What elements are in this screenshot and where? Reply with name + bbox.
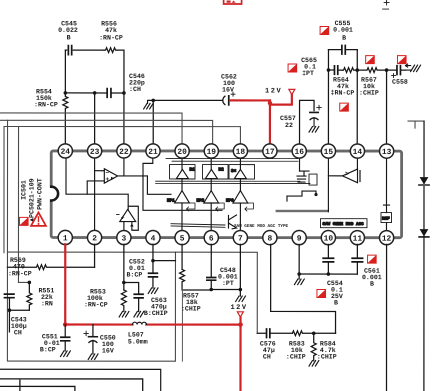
- wire double bus right: [276, 210, 328, 212]
- capacitor C546: [107, 89, 111, 98]
- svg-text:16: 16: [294, 148, 304, 157]
- capacitor C576: [257, 329, 292, 338]
- svg-text::CHIP: :CHIP: [181, 305, 201, 312]
- capacitor C558: [387, 66, 406, 78]
- svg-text:15: 15: [324, 148, 334, 157]
- pin 13: [380, 144, 394, 158]
- svg-text:B: B: [334, 300, 338, 307]
- node dot pin3: [122, 281, 126, 285]
- wire pin12 drop: [385, 244, 387, 391]
- node dot pin7: [239, 288, 243, 292]
- label C545 0.022 B: [58, 20, 78, 41]
- label C576 47u CH: [260, 341, 276, 361]
- svg-text:▲PC5021-109: ▲PC5021-109: [28, 178, 35, 222]
- capacitor C563: [124, 283, 143, 312]
- red marker square R564 below: [340, 103, 349, 111]
- wire R556 right vertical to pin22: [117, 50, 124, 93]
- wire left vertical x3.5: [3, 126, 5, 252]
- red marker square C554: [317, 290, 326, 298]
- box top right corner y121.5: [408, 121, 424, 128]
- wire pin7 drop: [239, 244, 241, 296]
- saw generator ramp lines: [171, 224, 225, 228]
- pin 9: [292, 231, 306, 245]
- wire red 12V feed: [230, 95, 292, 145]
- REF box: [381, 213, 392, 223]
- svg-text:NP1: NP1: [167, 198, 175, 203]
- resistor R584: [311, 333, 316, 361]
- comparator U1b triangle up: [116, 206, 138, 231]
- box B outline: [0, 369, 161, 391]
- pin 7: [233, 231, 247, 245]
- svg-text:470: 470: [13, 263, 25, 270]
- svg-text:13: 13: [382, 148, 392, 157]
- svg-text::RN-CP: :RN-CP: [8, 270, 32, 277]
- resistor R553: [121, 290, 126, 312]
- wire pin5 drop: [181, 244, 183, 269]
- wire REF to pin12: [385, 223, 387, 231]
- svg-text:B: B: [370, 281, 374, 288]
- svg-text:3×: 3×: [231, 169, 237, 174]
- wire left bus2 to pin19: [0, 120, 213, 144]
- svg-text::RN: :RN: [41, 300, 53, 307]
- resistor R583: [292, 331, 335, 336]
- wire C545 left vertical: [64, 50, 66, 93]
- ground pin7: [236, 296, 246, 302]
- capacitor C552: [149, 273, 158, 288]
- wire U1a output drop: [147, 176, 171, 194]
- svg-text:3: 3: [121, 234, 126, 243]
- svg-text:10: 10: [324, 235, 334, 244]
- label R584 4.7k :CHIP: [317, 341, 337, 361]
- resistor R551: [27, 282, 32, 310]
- pin 4: [146, 230, 160, 244]
- ground R553: [119, 311, 129, 317]
- resistor R556: [104, 48, 117, 53]
- label C562 100 16V: [221, 74, 237, 94]
- node junction dot R567 right pin13: [385, 68, 389, 72]
- wire pin14 net vertical: [356, 70, 358, 144]
- pin 15: [321, 144, 335, 158]
- pin 14: [350, 144, 364, 158]
- svg-text:NP2: NP2: [196, 198, 204, 203]
- red marker box top edge: [224, 0, 242, 4]
- svg-text:19: 19: [207, 148, 217, 157]
- svg-text:22: 22: [285, 122, 293, 129]
- label C546 220p :CH: [129, 73, 145, 93]
- wire C548 net to pin7: [211, 288, 240, 290]
- red marker square C558: [397, 56, 406, 64]
- node dot R583 right: [312, 331, 316, 335]
- svg-text:16V: 16V: [102, 347, 114, 354]
- svg-text::CH: :CH: [129, 86, 141, 93]
- svg-text:SAW GENE MOD AGC TYPE: SAW GENE MOD AGC TYPE: [234, 224, 289, 229]
- ground R584: [309, 361, 319, 367]
- diode D2: [419, 229, 429, 237]
- node dot C543 bottom: [8, 308, 12, 312]
- label L507 5.0mm: [128, 331, 148, 345]
- svg-text:5.0mm: 5.0mm: [128, 338, 148, 345]
- wire pin13 internal vertical: [383, 157, 389, 212]
- pin 10: [321, 231, 335, 245]
- wire gray top extension to C576 leg: [175, 252, 257, 333]
- label C551 0.01 B:CP: [40, 333, 60, 353]
- inductor L507: [132, 322, 146, 324]
- pin 12: [379, 231, 393, 245]
- diode D1: [419, 177, 429, 185]
- wire pin21 internal path: [143, 157, 222, 210]
- resistor R557: [180, 269, 212, 290]
- supply arrow 12V red: [289, 89, 295, 94]
- svg-text::RN-CP: :RN-CP: [84, 301, 108, 308]
- pin 8: [263, 231, 277, 245]
- ground pin9: [294, 279, 304, 285]
- node junction dot x95 y93: [93, 91, 97, 95]
- wire pin13 net vertical: [386, 70, 388, 144]
- svg-text:7: 7: [238, 235, 243, 244]
- red marker square warning: [19, 217, 28, 225]
- supply arrow 12V red bottom: [237, 312, 243, 317]
- svg-text:2: 2: [92, 234, 97, 243]
- label C563 470p B:CHIP: [144, 297, 168, 317]
- label C543 100u CH: [11, 316, 27, 336]
- capacitor C543: [4, 294, 29, 332]
- ground C551: [61, 351, 71, 357]
- svg-text:B:CP: B:CP: [126, 271, 142, 278]
- wire pin2 drop: [94, 244, 96, 267]
- resistor R554: [63, 93, 68, 144]
- node junction dot x124 y93: [122, 91, 126, 95]
- node dot R551 top: [28, 281, 32, 285]
- pin 3: [117, 230, 131, 244]
- wire red bus right of L507: [146, 323, 240, 325]
- capacitor C557 polarized: [310, 105, 321, 126]
- wire pin9 drop: [298, 244, 300, 279]
- wire R557 column down: [181, 290, 183, 361]
- buffer box pin19 column: [203, 165, 229, 179]
- node dot pin9: [297, 272, 301, 276]
- ground C550: [88, 354, 98, 360]
- capacitor C561: [352, 244, 362, 274]
- box A outline: [7, 252, 175, 361]
- svg-text:11: 11: [353, 235, 363, 244]
- buffer triangle B3: [231, 169, 246, 179]
- red marker square C565: [288, 64, 297, 72]
- comparator Q20 triangle: [167, 157, 195, 231]
- svg-text:12V: 12V: [265, 88, 282, 96]
- wire red bus left of L507: [65, 323, 132, 325]
- capacitor C555: [328, 45, 357, 54]
- pin 16: [292, 144, 306, 158]
- pin 17: [263, 144, 277, 158]
- label C561 0.001 B: [362, 268, 382, 288]
- label R583 10k :CHIP: [286, 341, 306, 361]
- wire pin22 vertical below bus: [123, 93, 125, 144]
- svg-text:B1: B1: [190, 167, 196, 172]
- svg-text:B:CP: B:CP: [40, 346, 56, 353]
- node red dot 12V bus: [238, 322, 243, 327]
- wire left bus1 to pin20: [0, 113, 182, 144]
- svg-text:5: 5: [180, 234, 185, 243]
- IC notch: [49, 186, 53, 201]
- svg-text:CH: CH: [14, 329, 22, 336]
- wire left bus3 to pin18: [4, 126, 240, 144]
- svg-text::RN-CP: :RN-CP: [99, 34, 123, 41]
- svg-text:21: 21: [148, 148, 158, 157]
- saw transistor symbol: [228, 215, 236, 229]
- red marker square C555: [320, 27, 329, 35]
- svg-text::RN-CP: :RN-CP: [34, 101, 58, 108]
- label R569 470 :RN-CP: [8, 257, 32, 278]
- svg-text:PWN-CONT: PWN-CONT: [36, 178, 43, 210]
- wire diode column vertical: [423, 121, 425, 391]
- node dot C548: [209, 288, 213, 292]
- node junction dot R564 left: [327, 68, 331, 72]
- svg-text:NP3: NP3: [226, 199, 234, 204]
- svg-text:12V: 12V: [230, 304, 247, 312]
- wire left vertical x18.5: [18, 126, 29, 282]
- wire pin21 vertical: [152, 100, 154, 144]
- pin 6: [204, 230, 218, 244]
- red marker square C561: [368, 255, 377, 263]
- svg-text:1: 1: [63, 234, 68, 243]
- ground C552: [148, 288, 158, 294]
- svg-text::CHIP: :CHIP: [317, 354, 337, 361]
- label R556 47k :RN-CP: [99, 20, 123, 41]
- svg-text::PT: :PT: [222, 280, 234, 287]
- pin 21: [146, 144, 160, 158]
- label C555 0.001 B: [333, 20, 353, 42]
- svg-text:9: 9: [297, 235, 302, 244]
- svg-text:SAW GENE MOD AGC: SAW GENE MOD AGC: [322, 222, 364, 227]
- buffer box pin18 column: [229, 165, 255, 179]
- capacitor C550 polarized: [84, 325, 97, 354]
- label R554 150k :RN-CP: [34, 88, 58, 108]
- svg-text:B: B: [342, 35, 346, 42]
- label C548 0.001 :PT: [218, 267, 238, 287]
- wire pin22 to U1a output: [123, 157, 125, 176]
- wire pin24 internal L: [66, 157, 128, 209]
- svg-text:8: 8: [267, 235, 272, 244]
- svg-text:12: 12: [382, 235, 392, 244]
- comparator Q19 triangle: [196, 157, 224, 231]
- pin 19: [204, 144, 218, 158]
- box SAW GENE MOD AGC TYPE: [320, 219, 367, 228]
- capacitor C551: [61, 325, 70, 351]
- wire pin23 vertical from bus: [94, 93, 96, 144]
- wire bus y93: [65, 92, 124, 94]
- label C550 100 16V: [100, 334, 116, 354]
- capacitor C545: [65, 46, 104, 55]
- TOPSECTION: [19, 144, 401, 245]
- wire pin15 internal vertical: [327, 157, 329, 211]
- buffer triangle B1: [176, 167, 195, 178]
- resistor R569: [7, 265, 94, 270]
- ground at C562 net: [144, 100, 154, 109]
- ground C557: [309, 127, 319, 133]
- pin 2: [87, 230, 101, 244]
- resistor R567: [357, 68, 386, 73]
- node junction dot R564 right: [355, 68, 359, 72]
- wire red 12V vertical bottom: [239, 317, 241, 391]
- label R567 10k :CHIP: [359, 77, 379, 97]
- svg-text:22: 22: [119, 148, 129, 157]
- wire C562 left horizontal: [153, 99, 222, 101]
- pin 23: [88, 144, 102, 158]
- pin 5: [175, 230, 189, 244]
- wire pin4 to boxA edge: [153, 260, 176, 262]
- comparator Q18 triangle: [226, 157, 253, 231]
- node junction dot x65 y93: [64, 91, 68, 95]
- pin 24: [58, 144, 72, 158]
- label C557 22: [280, 115, 296, 129]
- wire C555 loop verticals: [328, 50, 357, 70]
- box C inner outline: [0, 379, 143, 391]
- resistor R564: [343, 68, 358, 73]
- wire pin3 drop: [123, 244, 125, 290]
- svg-text:0.001: 0.001: [333, 27, 353, 34]
- svg-text:16V: 16V: [222, 87, 234, 94]
- svg-text:B:CHIP: B:CHIP: [144, 310, 168, 317]
- pin 22: [117, 144, 131, 158]
- wire pin16 corner: [300, 100, 315, 144]
- wire double bus upper: [166, 159, 298, 162]
- svg-text:17: 17: [265, 148, 275, 157]
- svg-text:18: 18: [236, 148, 246, 157]
- svg-text:‡RN-CP: ‡RN-CP: [331, 90, 355, 97]
- svg-text:C558: C558: [392, 79, 408, 86]
- svg-text:4: 4: [151, 234, 156, 243]
- svg-text:REF: REF: [382, 217, 390, 222]
- svg-text:47k: 47k: [105, 27, 117, 34]
- buffer triangle B2: [205, 167, 224, 178]
- svg-text:24: 24: [61, 148, 71, 157]
- IC501 body outline: [51, 151, 401, 238]
- label C554 0.1 25V B: [327, 280, 343, 307]
- svg-text:C557: C557: [280, 115, 296, 122]
- wire caps bus y274: [299, 273, 357, 275]
- wire red pin1 drop: [64, 244, 66, 324]
- label R551 22k :RN: [38, 287, 54, 307]
- label R557 18k :CHIP: [181, 292, 201, 312]
- node dot pin4: [151, 259, 155, 263]
- ICSECTION: [0, 244, 387, 391]
- node red junction pin17: [268, 101, 272, 105]
- svg-text::CHIP: :CHIP: [286, 354, 306, 361]
- svg-text:‡PT: ‡PT: [302, 70, 314, 77]
- pin 11: [350, 231, 364, 245]
- wire pin8 path: [271, 244, 336, 333]
- red marker square R567: [366, 56, 375, 64]
- svg-text:0.022: 0.022: [58, 27, 78, 34]
- label C565 0.1 PT: [301, 57, 317, 77]
- node dot C554: [327, 272, 331, 276]
- capacitor C562 polarized: [223, 92, 235, 105]
- pin 20: [175, 144, 189, 158]
- svg-text:14: 14: [353, 148, 363, 157]
- node junction dot C562 left: [151, 99, 155, 103]
- top right plus mark: [383, 0, 390, 9]
- capacitor C565 on wire: [328, 66, 342, 74]
- svg-text:IC501: IC501: [20, 180, 27, 200]
- svg-text:23: 23: [90, 148, 100, 157]
- pin 1: [58, 230, 72, 244]
- svg-text:L507: L507: [128, 331, 144, 338]
- op-amp U1c left pointing: [328, 157, 360, 182]
- wire pin23 internal vertical to pin2: [94, 157, 96, 230]
- wire left vertical x9.5: [6, 120, 8, 252]
- label C552 0.01 B:CP: [126, 258, 144, 278]
- svg-text:6: 6: [209, 234, 214, 243]
- svg-text:20: 20: [177, 148, 187, 157]
- pin 18: [233, 144, 247, 158]
- wire pin15 net vertical: [327, 70, 329, 144]
- buffer box pin20 column: [170, 165, 196, 179]
- ground C563: [134, 311, 144, 317]
- label R553 100k :RN-CP: [84, 288, 108, 308]
- svg-text:B2: B2: [219, 168, 225, 173]
- svg-text::CHIP: :CHIP: [359, 90, 379, 97]
- wire pin4 drop: [152, 244, 154, 273]
- ground arrow right of C558: [406, 64, 421, 72]
- svg-text:B: B: [67, 34, 71, 41]
- wire pin16 internal: [287, 157, 318, 201]
- red warning triangle: [31, 212, 46, 226]
- wire double bus lower: [156, 181, 310, 183]
- node red dot pin1 bus: [63, 322, 68, 327]
- op-amp U1a inside IC: [87, 169, 147, 194]
- capacitor C548: [207, 244, 216, 289]
- label R564 47k RN-CP: [331, 77, 355, 97]
- svg-text:CH: CH: [263, 354, 271, 361]
- capacitor C554: [323, 244, 333, 274]
